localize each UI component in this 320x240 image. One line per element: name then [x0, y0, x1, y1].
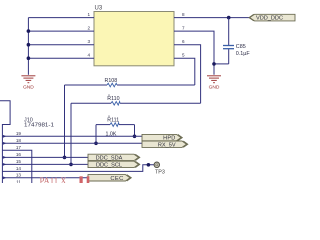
- svg-text:DDC_SCL: DDC_SCL: [96, 163, 122, 169]
- svg-text:RX_5V: RX_5V: [158, 142, 176, 148]
- node junction R108/DDC_SDA: [63, 156, 67, 160]
- node junction TP3 wire: [147, 163, 151, 167]
- wire pin 7: [174, 26, 214, 75]
- svg-text:2: 2: [87, 26, 90, 31]
- node junction pin4: [27, 56, 31, 60]
- svg-text:4: 4: [87, 53, 90, 58]
- port flag DDC_SDA: [88, 154, 140, 161]
- svg-text:CEC: CEC: [110, 176, 123, 182]
- svg-text:18: 18: [16, 138, 22, 143]
- svg-text:R111: R111: [107, 117, 119, 123]
- node junction pin7/C85/GND: [212, 62, 216, 66]
- connector J10 label: [24, 118, 54, 129]
- port flag RX_5V: [142, 141, 188, 148]
- svg-text:R110: R110: [107, 96, 119, 102]
- svg-text:VDD_DDC: VDD_DDC: [256, 16, 283, 22]
- wire pin 2: [28, 26, 94, 32]
- svg-text:GND: GND: [209, 84, 220, 90]
- capacitor C85: [223, 18, 250, 64]
- svg-text:C85: C85: [236, 44, 246, 50]
- svg-text:17: 17: [16, 145, 22, 150]
- wire pin 8: [174, 12, 250, 18]
- wire row pin 19 to HPD: [2, 131, 142, 138]
- svg-text:DDC_SDA: DDC_SDA: [96, 156, 123, 162]
- svg-text:PA11 X: PA11 X: [40, 177, 67, 183]
- port flag DDC_SCL: [88, 161, 140, 168]
- svg-text:TP3: TP3: [155, 170, 165, 176]
- wire row pin 13 to CEC: [2, 173, 88, 180]
- wire connector bus entry: [0, 101, 10, 183]
- svg-text:1: 1: [87, 12, 90, 17]
- wire row pin 14 to TP3: [2, 165, 154, 172]
- node junction pin8 / C85: [227, 16, 231, 20]
- svg-text:19: 19: [16, 131, 22, 136]
- svg-text:GND: GND: [23, 84, 34, 90]
- svg-text:5: 5: [182, 53, 185, 58]
- node junction R110/DDC_SCL: [69, 163, 73, 167]
- node junction pin3: [27, 43, 31, 47]
- ground GND left: [21, 76, 35, 83]
- svg-text:14: 14: [16, 166, 22, 171]
- svg-text:11: 11: [16, 179, 21, 183]
- wire row pin 17: [2, 145, 31, 183]
- svg-text:1747981-1: 1747981-1: [24, 123, 54, 129]
- svg-text:R108: R108: [105, 78, 118, 84]
- svg-text:6: 6: [182, 39, 185, 44]
- resistor R111: [96, 115, 135, 143]
- wire row pin 18 to RX_5V: [2, 138, 142, 145]
- resistor R110: [71, 94, 201, 164]
- node junction R111/RX_5V: [94, 142, 98, 146]
- wire row pin 16 to DDC_SDA: [2, 152, 88, 159]
- node junction pin2: [27, 29, 31, 33]
- wire pin 4: [28, 53, 94, 59]
- svg-text:13: 13: [16, 173, 22, 178]
- resistor R108: [65, 78, 195, 157]
- wire pin 3: [28, 39, 94, 45]
- wire left bus vertical: [27, 18, 29, 75]
- svg-text:15: 15: [16, 159, 22, 164]
- test point TP3: [154, 162, 165, 176]
- ground GND right: [207, 76, 221, 83]
- svg-text:8: 8: [182, 12, 185, 17]
- wire row pin 15 to DDC_SCL: [2, 159, 88, 166]
- red annotation mark: [80, 176, 83, 183]
- svg-text:U3: U3: [95, 6, 103, 12]
- wire pin 1: [28, 12, 94, 18]
- port flag CEC: [88, 175, 131, 182]
- wire pin 6 to R110: [174, 39, 201, 103]
- power flag VDD_DDC: [249, 14, 295, 21]
- svg-text:7: 7: [182, 26, 185, 31]
- svg-text:0.1µF: 0.1µF: [236, 51, 251, 57]
- IC U3: [94, 6, 174, 66]
- svg-text:16: 16: [16, 152, 22, 157]
- wire C85 bottom to GND node: [214, 63, 229, 65]
- node junction R111/HPD: [133, 135, 137, 139]
- svg-text:3: 3: [87, 39, 90, 44]
- port flag HPD: [142, 134, 182, 141]
- wire pin 5 to R108: [174, 53, 195, 85]
